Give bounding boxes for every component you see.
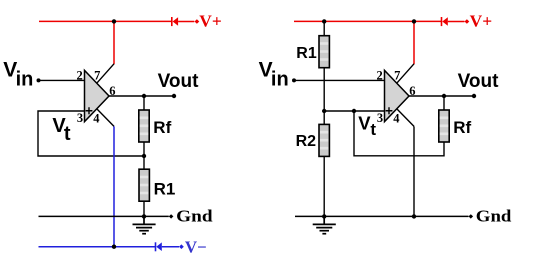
node: divider junction [322,109,326,113]
terminal: V- arrow bar [155,242,157,251]
wire: R1 bottom lead down to divider node [323,68,325,111]
node: V+ terminal diamond (right) [465,19,470,24]
wire: R1 top lead (right) [323,21,325,35]
resistor R2 [319,124,329,156]
node: ground junction [142,214,146,218]
wire: R2 bottom lead [323,156,325,216]
node: Vout terminal dot (right) [472,94,476,98]
wire: V+ arrow stub (right) [448,21,465,23]
wire: Rf top lead [143,96,145,110]
resistor Rf [139,110,149,142]
node: feedback tap junction [352,109,356,113]
svg-text:3: 3 [77,111,83,125]
svg-text:V+: V+ [470,11,493,30]
node: V+ terminal diamond [195,19,200,24]
svg-text:in: in [16,69,34,91]
node: Gnd terminal diamond [169,214,174,218]
wire: V- arrow stub [162,246,179,248]
svg-text:Gnd: Gnd [476,207,512,226]
node: junction V- rail / vertical [112,245,116,249]
terminal: V- arrow triangle [156,242,162,251]
wire: V- rail (blue) [39,246,156,248]
op-amp U1 plus sign [86,107,93,114]
wire: R1 bottom lead [143,201,145,216]
terminal: V+ arrow triangle [173,17,179,26]
resistor R1 (right) [319,36,329,68]
svg-text:Rf: Rf [453,118,471,137]
wire: Vin to pin 2 (right) [294,79,385,81]
wire: V+ rail right (red) [294,20,441,22]
wire: pin 4 vertical down to ground [413,126,415,216]
node: Vin terminal dot (right) [292,78,296,82]
wire: V+ vertical drop to pin 7 (red) [113,21,115,64]
wire: Gnd rail right [295,215,469,217]
wire: R1 top lead [143,156,145,169]
svg-text:in: in [271,69,289,91]
svg-text:7: 7 [394,68,400,82]
wire: pin 4 lead right (diagonal) [397,109,414,127]
svg-text:t: t [64,123,71,145]
svg-text:Vout: Vout [458,71,499,92]
wire: Vin to pin 2 [39,79,85,81]
ground symbol (right) [313,216,336,233]
svg-text:V: V [358,113,371,134]
svg-text:7: 7 [94,68,100,82]
node: Rf/R1 feedback junction [142,154,146,158]
svg-text:Rf: Rf [153,118,171,137]
ground symbol (left) [133,216,156,233]
node: output junction (right) [442,94,446,98]
node: Gnd terminal diamond (right) [469,214,474,218]
svg-text:Vout: Vout [158,71,199,92]
wire: V+ vertical drop to pin 7 right (red) [413,21,415,64]
svg-text:t: t [370,120,376,139]
svg-text:4: 4 [393,111,400,125]
wire: pin 7 lead (diagonal) [97,64,114,83]
resistor Rf (right) [439,110,449,142]
wire: output pin 6 to Vout [109,95,174,97]
node: Vout terminal dot [172,94,176,98]
wire: Rf top lead (right) [443,96,445,110]
node: V- terminal diamond [179,244,184,249]
terminal: V+ arrow triangle (right) [442,17,448,26]
node: ground junction pin4 [412,214,416,218]
wire: feedback box to pin 3 [38,111,144,156]
svg-text:R1: R1 [296,45,317,62]
wire: V+ arrow stub [178,21,194,23]
wire: divider node to pin 3 [324,110,384,112]
op-amp U1 [85,70,110,121]
node: junction V+ rail / vertical [412,19,416,23]
svg-text:R2: R2 [296,133,317,150]
node: output junction [142,94,146,98]
svg-text:3: 3 [377,111,383,125]
terminal: V+ arrow bar [171,17,173,26]
node: ground junction R2 [322,214,326,218]
wire: Gnd rail left [39,215,169,217]
wire: V- vertical (blue) [113,126,115,246]
wire: R2 top lead [323,111,325,124]
resistor R1 (left) [139,169,149,201]
svg-text:R1: R1 [154,179,176,198]
svg-text:4: 4 [93,111,100,125]
wire: V+ rail left (red) [39,20,172,22]
node: junction V+ rail / vertical [112,19,116,23]
op-amp U2 plus sign [386,107,393,114]
svg-text:V+: V+ [199,11,222,30]
wire: output pin 6 to Vout (right) [409,95,474,97]
terminal: V+ arrow bar (right) [441,17,443,26]
wire: pin 4 lead (diagonal) [97,109,114,127]
node: Vin terminal dot [37,78,41,82]
wire: feedback box right (tap to Rf bottom) [354,111,444,156]
svg-text:V−: V− [185,238,207,257]
wire: Rf bottom lead [143,142,145,156]
svg-text:Gnd: Gnd [176,207,212,226]
node: junction V+ rail / R1 top [322,19,326,23]
svg-text:2: 2 [376,68,382,82]
wire: pin 7 lead right (diagonal) [397,64,414,83]
op-amp U2 [385,70,410,121]
